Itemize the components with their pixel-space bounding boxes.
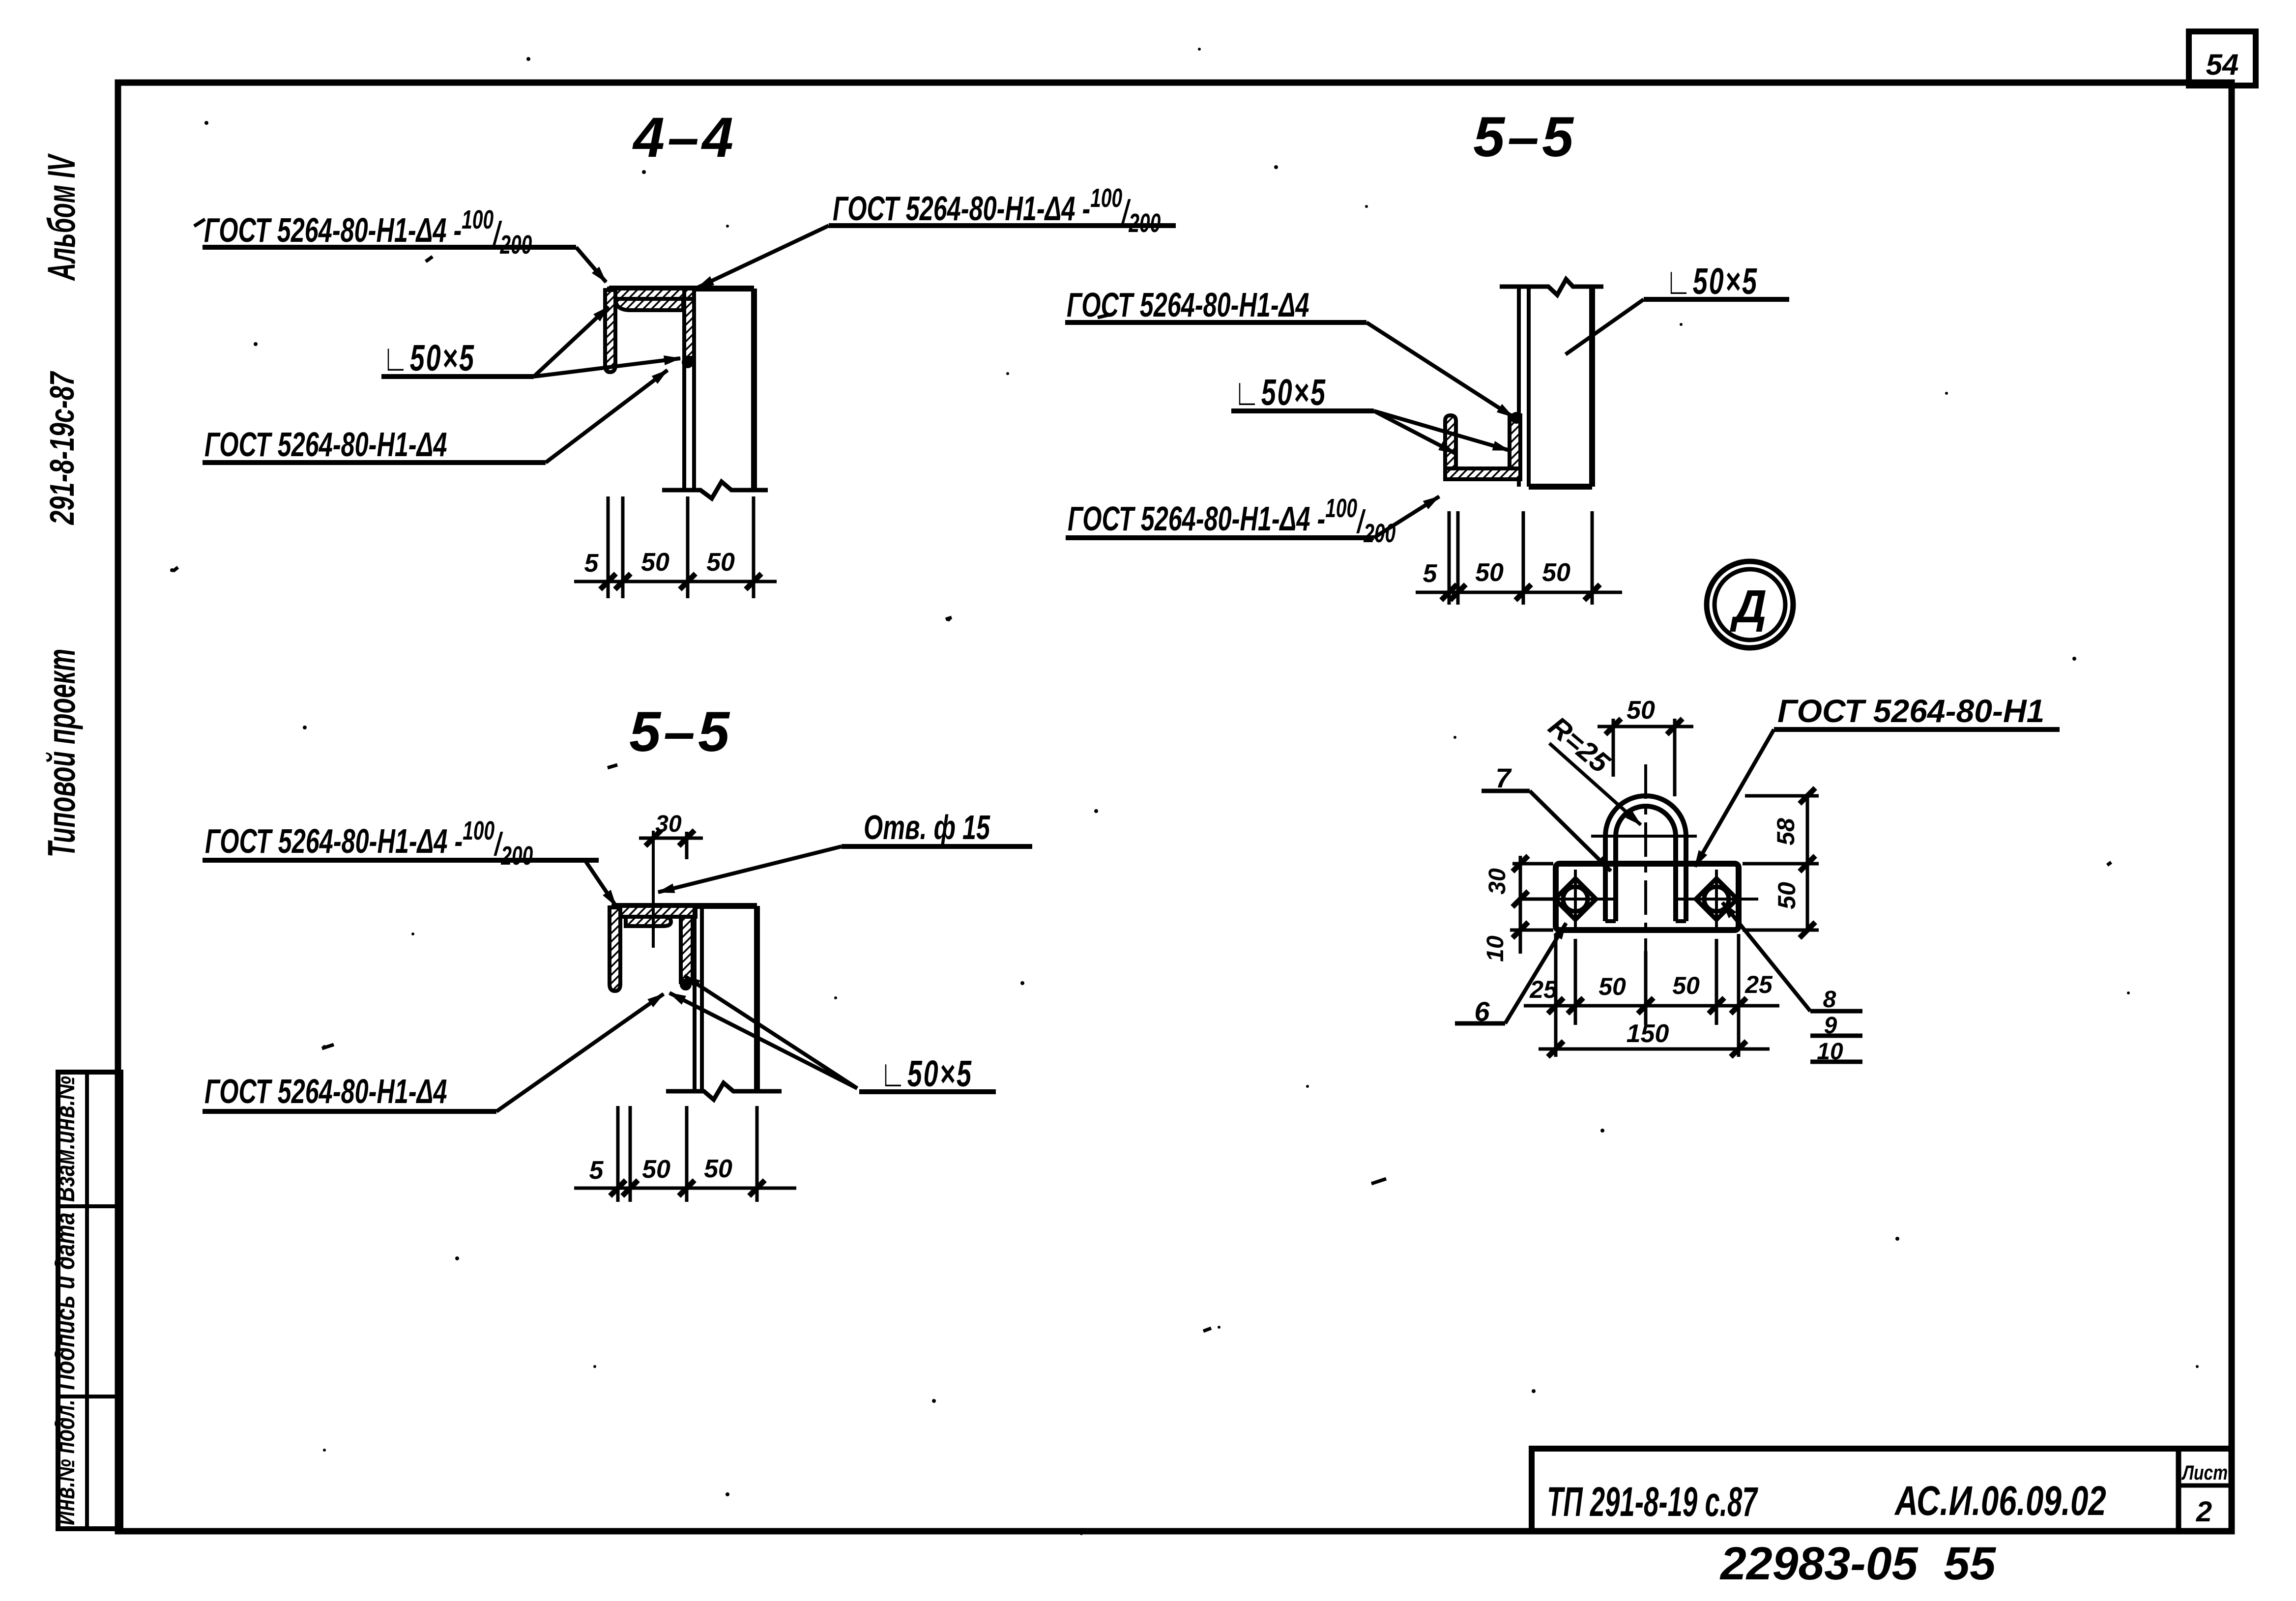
svg-text:50: 50	[1672, 972, 1700, 999]
svg-text:50: 50	[1627, 696, 1655, 725]
svg-text:АС.И.06.09.02: АС.И.06.09.02	[1894, 1478, 2106, 1524]
svg-text:50: 50	[642, 1155, 670, 1184]
svg-text:Взам.инв.№: Взам.инв.№	[51, 1076, 81, 1202]
svg-text:ГОСТ 5264-80-Н1-Δ4 -100/200: ГОСТ 5264-80-Н1-Δ4 -100/200	[833, 183, 1161, 238]
svg-text:58: 58	[1772, 818, 1800, 845]
svg-text:∟50×5: ∟50×5	[880, 1053, 973, 1094]
svg-text:ГОСТ 5264-80-Н1-Δ4: ГОСТ 5264-80-Н1-Δ4	[1067, 286, 1309, 324]
svg-text:Д: Д	[1730, 581, 1767, 633]
svg-text:22983-05 55: 22983-05 55	[1719, 1538, 1996, 1590]
svg-text:Подпись и дата: Подпись и дата	[50, 1212, 81, 1390]
svg-text:Типовой проект: Типовой проект	[40, 649, 84, 857]
svg-text:150: 150	[1627, 1019, 1669, 1048]
svg-text:5–5: 5–5	[1473, 106, 1576, 169]
svg-text:Лист: Лист	[2181, 1462, 2228, 1485]
svg-text:50: 50	[704, 1155, 732, 1183]
svg-text:5: 5	[1423, 559, 1438, 588]
svg-text:ГОСТ 5264-80-Н1-Δ4: ГОСТ 5264-80-Н1-Δ4	[204, 425, 447, 464]
svg-text:∟50×5: ∟50×5	[1234, 372, 1327, 413]
svg-text:ГОСТ 5264-80-Н1-Δ4: ГОСТ 5264-80-Н1-Δ4	[204, 1072, 447, 1110]
svg-text:54: 54	[2206, 48, 2239, 81]
svg-text:Альбом IV: Альбом IV	[39, 153, 83, 282]
svg-text:50: 50	[1598, 973, 1626, 1000]
svg-text:50: 50	[1475, 558, 1504, 587]
svg-text:30: 30	[1484, 868, 1511, 895]
svg-text:8: 8	[1823, 987, 1836, 1013]
svg-text:50: 50	[641, 548, 669, 577]
svg-text:50: 50	[1773, 882, 1801, 909]
svg-text:ТП 291-8-19 с.87: ТП 291-8-19 с.87	[1547, 1479, 1758, 1525]
svg-text:∟50×5: ∟50×5	[1665, 261, 1758, 302]
svg-text:∟50×5: ∟50×5	[382, 337, 475, 378]
svg-text:5: 5	[584, 549, 599, 578]
svg-text:Отв. ф 15: Отв. ф 15	[864, 808, 990, 846]
svg-text:ГОСТ 5264-80-Н1: ГОСТ 5264-80-Н1	[1777, 693, 2044, 729]
svg-text:25: 25	[1744, 971, 1773, 998]
svg-text:Инв.№ подл.: Инв.№ подл.	[50, 1399, 81, 1525]
svg-text:5–5: 5–5	[629, 700, 732, 763]
svg-text:291-8-19с-87: 291-8-19с-87	[43, 371, 81, 525]
svg-text:30: 30	[655, 811, 682, 837]
svg-text:50: 50	[706, 548, 735, 577]
svg-text:2: 2	[2196, 1496, 2212, 1528]
svg-text:50: 50	[1542, 558, 1570, 587]
svg-text:ГОСТ 5264-80-Н1-Δ4 -100/200: ГОСТ 5264-80-Н1-Δ4 -100/200	[204, 204, 532, 260]
svg-text:4–4: 4–4	[632, 106, 736, 169]
svg-text:10: 10	[1482, 935, 1509, 962]
svg-text:5: 5	[589, 1156, 604, 1185]
